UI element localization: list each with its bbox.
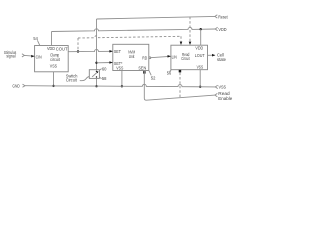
wire dashed arrow into read top left xyxy=(180,36,182,42)
terminal VDD chevron xyxy=(215,27,217,30)
junction dot NVM VSS to GND xyxy=(121,85,123,87)
svg-text:Circuit: Circuit xyxy=(181,56,190,62)
wire clamp VSS pin vertical xyxy=(53,72,55,86)
switch callout leader curve xyxy=(80,76,90,80)
terminal VSS chevron xyxy=(215,85,217,88)
leader 52 xyxy=(149,71,151,76)
terminal Reset chevron xyxy=(215,15,217,18)
svg-text:VSS: VSS xyxy=(197,65,204,70)
wire VDD rail horizontal xyxy=(52,27,216,31)
svg-text:signal: signal xyxy=(6,54,15,59)
pin bubble RD xyxy=(149,57,151,59)
NVM unit box 52 xyxy=(113,44,149,70)
svg-text:60: 60 xyxy=(102,66,107,71)
junction dot dashed to COUT line xyxy=(77,50,79,52)
junction dot switch to GND xyxy=(95,85,97,87)
wire Reset vertical drop xyxy=(96,19,98,70)
wire RD to LIN xyxy=(151,56,171,57)
svg-text:Enable: Enable xyxy=(218,96,232,101)
svg-text:Unit: Unit xyxy=(129,54,135,60)
arrowhead down into read box right xyxy=(189,42,192,45)
svg-text:VDD: VDD xyxy=(195,45,203,50)
junction dot read VSS to GND xyxy=(199,86,201,88)
svg-text:58: 58 xyxy=(102,76,107,81)
svg-text:SET: SET xyxy=(114,49,121,54)
wire SEN vertical to read enable xyxy=(144,71,215,101)
wire clamp VDD pin vertical xyxy=(51,32,53,46)
svg-text:CIN: CIN xyxy=(36,54,42,59)
switch blade arrowhead xyxy=(96,71,98,73)
svg-text:LOUT: LOUT xyxy=(195,53,205,58)
wire dashed reset to read top xyxy=(189,17,191,42)
arrowhead down into read box left xyxy=(180,42,183,45)
pin square SEN xyxy=(143,71,146,74)
svg-text:VDD: VDD xyxy=(47,46,56,51)
wire dashed program net horizontal xyxy=(78,36,181,38)
wire LOUT to cell state xyxy=(208,54,215,56)
wire dashed vertical to COUT node xyxy=(77,38,79,51)
clamp circuit box 54 xyxy=(35,46,69,72)
svg-text:VDD: VDD xyxy=(218,27,227,33)
svg-text:LIN: LIN xyxy=(172,55,177,60)
junction dot VDD to read circuit xyxy=(200,28,202,30)
svg-text:Circuit: Circuit xyxy=(66,78,77,83)
junction dot clamp VSS to GND xyxy=(52,85,54,87)
svg-text:GND: GND xyxy=(12,83,20,88)
svg-text:54: 54 xyxy=(33,36,38,41)
wire stimulus to CIN xyxy=(24,54,34,57)
leader 56 xyxy=(169,70,171,72)
leader 60 xyxy=(99,69,101,71)
read circuit box 56 xyxy=(171,45,208,69)
wire COUT to SET xyxy=(68,49,112,51)
arrowhead into LIN xyxy=(168,55,171,58)
terminal Read Enable chevron xyxy=(215,93,217,96)
leader 58 xyxy=(99,77,101,78)
switch contact top xyxy=(96,71,97,72)
leader 54 xyxy=(37,40,39,45)
switch blade xyxy=(92,72,97,77)
wire read VDD pin vertical xyxy=(200,29,202,45)
wire NVM VSS vertical xyxy=(121,71,123,87)
svg-text:COUT: COUT xyxy=(56,46,68,51)
svg-text:VSS: VSS xyxy=(50,63,57,68)
svg-text:state: state xyxy=(217,57,226,62)
junction dot Reset to SET* xyxy=(95,62,97,64)
svg-text:VSS: VSS xyxy=(219,85,227,91)
svg-text:circuit: circuit xyxy=(50,57,60,63)
wire SET* from reset drop xyxy=(97,62,113,64)
svg-text:VSS: VSS xyxy=(116,66,123,71)
svg-text:52: 52 xyxy=(151,75,156,80)
arrowhead into CIN xyxy=(31,55,34,58)
wire switch to GND xyxy=(96,78,98,86)
wire dashed read enable drop xyxy=(179,73,181,98)
svg-text:RD: RD xyxy=(142,55,148,60)
arrowhead cell state xyxy=(212,54,215,57)
pin square read enable xyxy=(179,70,182,73)
terminal GND chevron xyxy=(23,84,26,87)
arrowhead into SET xyxy=(109,50,112,53)
wire Reset net horizontal xyxy=(97,16,216,19)
switch contact bottom xyxy=(96,76,97,77)
svg-text:Reset: Reset xyxy=(218,14,228,20)
terminal stimulus chevron xyxy=(22,54,25,57)
svg-text:SEN: SEN xyxy=(138,66,146,71)
switch circuit box xyxy=(89,70,99,79)
arrowhead into SET* xyxy=(109,61,112,64)
wire GND rail xyxy=(25,84,215,87)
wire read VSS vertical xyxy=(199,70,201,87)
